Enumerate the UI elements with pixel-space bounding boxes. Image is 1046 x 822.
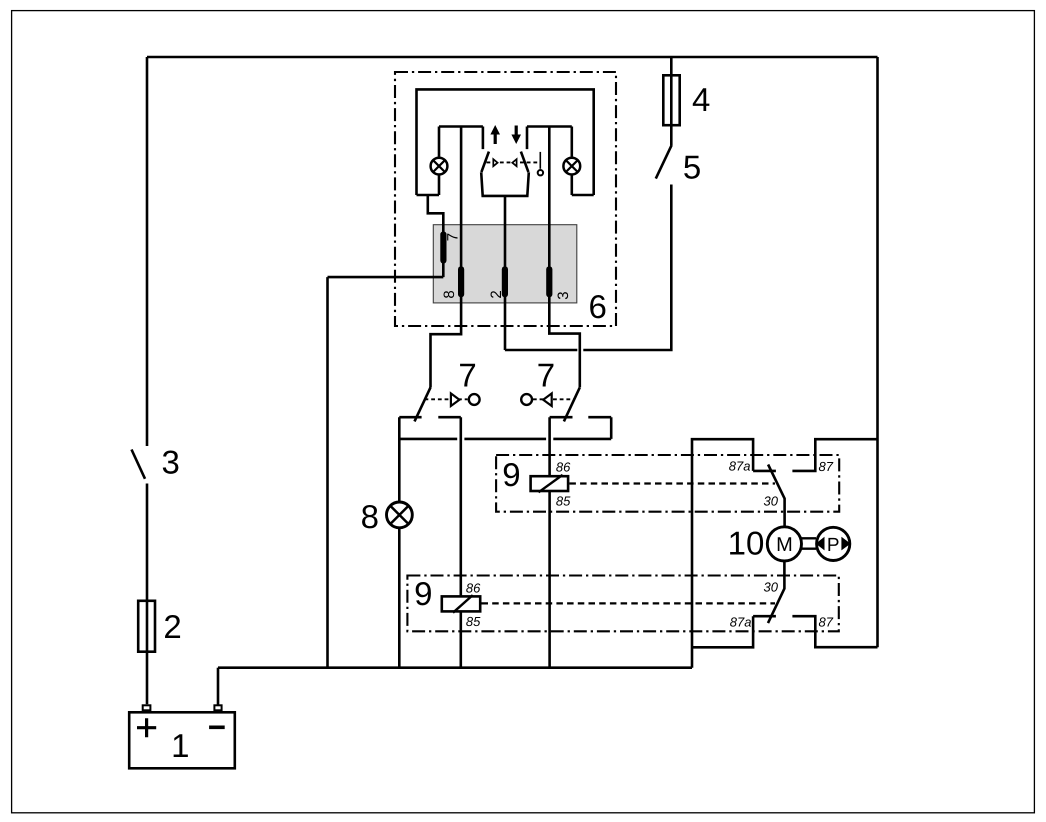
relay 9 top coil (531, 475, 569, 492)
wire: lamp 8 branch lower (398, 528, 401, 668)
lamp 8 (387, 502, 413, 528)
wire: pin 3 riser and drop (549, 127, 580, 388)
pin 8 contact bar (458, 269, 464, 294)
wire: right inner bracket (527, 127, 572, 150)
arrow down (511, 126, 521, 145)
svg-text:M: M (776, 534, 793, 556)
pin 7 contact bar (440, 235, 446, 261)
relay 9 bottom coil-contact dashed link (482, 602, 776, 604)
rocker actuator triangle right-pointing (493, 159, 497, 166)
switch 7 right actuator triangle (543, 393, 552, 406)
contact 87a bottom stub (753, 615, 776, 618)
wire: switch unit outer frame (417, 89, 594, 195)
pin 3 contact bar (546, 269, 552, 294)
relay 9 bottom coil (442, 595, 480, 613)
svg-text:7: 7 (537, 356, 555, 393)
svg-text:6: 6 (589, 288, 607, 325)
switch 7 left blade (415, 387, 431, 421)
switch 3 blade (132, 450, 146, 479)
svg-text:8: 8 (441, 290, 458, 298)
svg-text:5: 5 (683, 148, 701, 185)
relay contact blade top (30) (768, 465, 785, 527)
svg-text:86: 86 (466, 581, 481, 596)
rocker switch blades (481, 152, 528, 173)
svg-text:3: 3 (162, 443, 180, 480)
rocker switch body (481, 172, 529, 196)
battery 1 body (129, 712, 235, 768)
svg-text:P: P (827, 535, 840, 556)
relay 9 top dash-dot box (496, 455, 839, 512)
switch 7 left body (399, 416, 461, 419)
wire: 87 top feed from right bus (792, 439, 877, 471)
pin 2 contact bar (502, 269, 508, 294)
svg-text:9: 9 (414, 575, 432, 612)
fuse F4 (663, 75, 679, 125)
wire: left long drop to bottom bus (326, 277, 329, 668)
switch 7 right actuator dashes (533, 398, 574, 400)
manual override stem (539, 152, 541, 169)
switch 7 left actuator dashes (425, 398, 468, 400)
wire: 87 bottom feed from right bus (792, 616, 877, 647)
motor-pump coupling (801, 538, 816, 548)
switch 7 right blade (564, 387, 580, 421)
switch 5 blade (656, 145, 672, 178)
lamp right (in unit 6) (563, 158, 580, 175)
battery plus terminal (143, 705, 151, 710)
wire: battery minus riser to ground bus (217, 668, 220, 705)
wire: right lamp risers (570, 127, 573, 196)
svg-text:8: 8 (361, 498, 379, 535)
wire: left inner bracket (439, 127, 483, 150)
switch 7 left actuator triangle (451, 393, 460, 406)
wire: bottom return bus (218, 666, 692, 669)
connector block (433, 225, 577, 303)
arrow up (490, 125, 500, 144)
svg-text:87: 87 (819, 615, 834, 630)
wire: left lamp risers (438, 127, 441, 196)
wire: top supply bus (147, 56, 878, 59)
wire: left feed from top bus down to switch 3 (146, 57, 149, 446)
wire: frame bottom left to lamp (417, 194, 440, 197)
motor 10 circle M (767, 527, 801, 561)
wire: lamp 8 branch upper (398, 417, 401, 502)
svg-text:3: 3 (555, 291, 572, 299)
control unit 6 dash-dot box (395, 72, 616, 326)
svg-text:9: 9 (502, 456, 520, 493)
wire: motor unit left bracket bottom (692, 616, 753, 647)
wire: switch 5 down and left to pin 2 wire (505, 185, 671, 351)
switch 7 right actuator circle (521, 394, 532, 405)
relay 9 bottom dash-dot box (407, 576, 838, 632)
svg-text:7: 7 (444, 233, 461, 241)
lamp left (in unit 6) (431, 158, 448, 175)
wire: right bus from top to motor bracket (876, 57, 879, 647)
switch 7 right body (550, 417, 612, 439)
rocker actuator triangle left-pointing (512, 159, 516, 166)
svg-text:1: 1 (171, 727, 189, 764)
wire: pin 2 riser from rocker body (504, 196, 507, 350)
svg-text:87: 87 (819, 459, 834, 474)
wire: switch 3 to fuse 2 to battery plus (146, 484, 149, 705)
battery minus terminal (214, 705, 221, 710)
wire: switch bodies common link (399, 438, 611, 441)
fuse F2 (138, 601, 155, 652)
svg-text:87a: 87a (729, 458, 751, 473)
svg-text:2: 2 (488, 290, 505, 298)
switch 7 left actuator circle (469, 394, 480, 405)
wire: frame bottom right to lamp (572, 194, 594, 197)
relay contact blade bottom (30) (768, 562, 784, 624)
svg-text:7: 7 (458, 356, 476, 393)
svg-text:2: 2 (163, 608, 181, 645)
battery plus sign (137, 718, 156, 737)
svg-text:10: 10 (728, 525, 765, 562)
battery minus sign (209, 725, 225, 729)
wire: pin 7 horizontal to left drop (328, 276, 444, 279)
wire: pin 8 riser and drop (431, 127, 462, 388)
svg-text:30: 30 (764, 493, 779, 508)
wire: pin 7 jog from lamp line into connector (428, 195, 444, 277)
wire: relay A coil feed drop (548, 417, 551, 668)
svg-text:4: 4 (692, 81, 710, 118)
wire: relay B coil feed drop (459, 417, 462, 668)
svg-text:86: 86 (556, 460, 571, 475)
svg-text:85: 85 (556, 493, 571, 508)
wire: fuse 4 branch from top bus (670, 57, 673, 145)
contact 87a top stub (753, 470, 776, 473)
svg-text:30: 30 (764, 579, 779, 594)
relay 9 top coil-contact dashed link (569, 482, 775, 484)
manual override knob (538, 170, 543, 175)
wire: motor unit left bracket (692, 439, 753, 668)
svg-text:85: 85 (466, 614, 481, 629)
svg-text:87a: 87a (730, 615, 752, 630)
pump circle P (816, 527, 851, 560)
rocker actuator dashed link (487, 161, 541, 163)
